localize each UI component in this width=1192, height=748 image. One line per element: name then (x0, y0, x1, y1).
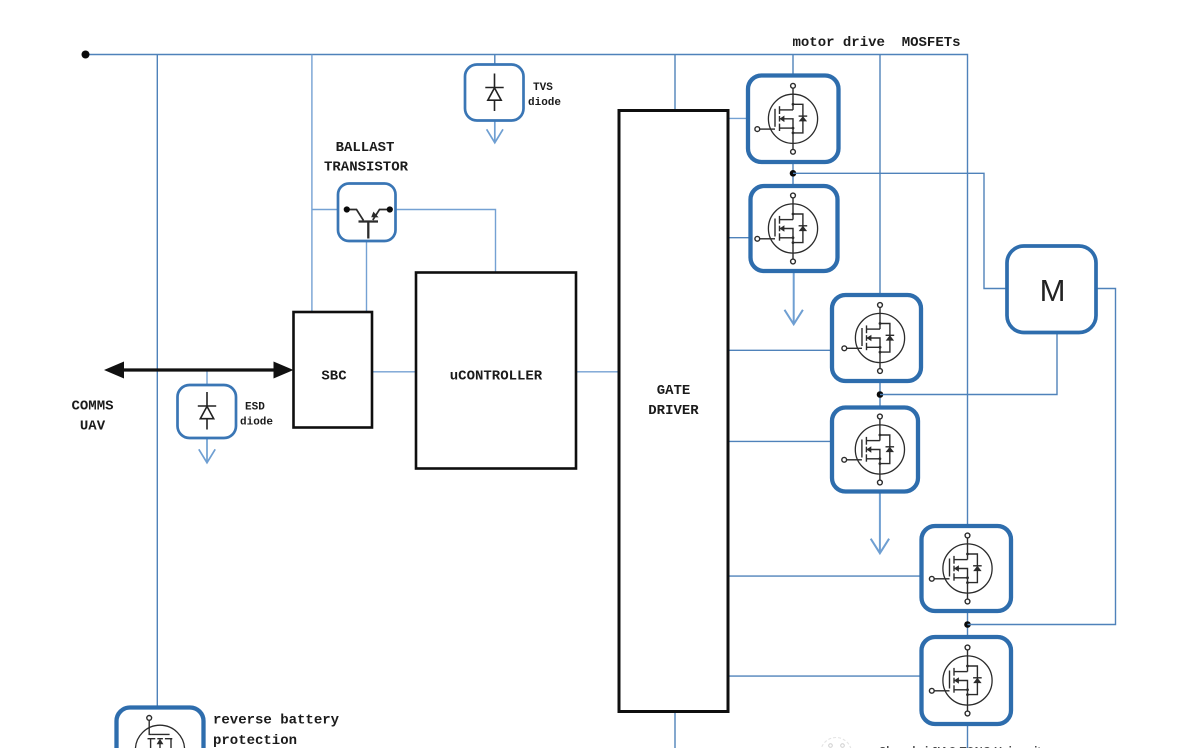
wire: SBC to uCONTROLLER (372, 371, 416, 373)
wire: drop to MOSFET Q1 (792, 55, 794, 76)
svg-text:M: M (1040, 273, 1066, 308)
wire: ballast collector to uCONTROLLER (396, 210, 496, 273)
transistor Q4 (motor MOSFET) (832, 408, 918, 492)
svg-text:TRANSISTOR: TRANSISTOR (324, 160, 409, 176)
ESD diode D2 (178, 385, 237, 438)
transistor Q3 (motor MOSFET) (832, 295, 921, 381)
wire: gate drive Q1 (728, 117, 749, 119)
arrow: Q4 source to ground (879, 492, 881, 552)
arrow: TVS diode to ground (494, 121, 496, 142)
wire: Q5-Q6 phase link (967, 611, 969, 637)
transistor Q6 (motor MOSFET) (922, 637, 1012, 724)
wire: gate driver below stub (674, 712, 676, 748)
svg-text:DRIVER: DRIVER (648, 403, 699, 419)
transistor Q8 (reverse battery protection) (117, 708, 204, 748)
svg-text:motor drive MOSFETs: motor drive MOSFETs (793, 35, 961, 51)
TVS diode D1 (465, 65, 524, 121)
wire: gate drive Q2 (728, 237, 751, 239)
transistor Q5 (motor MOSFET) (922, 526, 1012, 611)
transistor Q1 (motor MOSFET) (748, 76, 839, 163)
svg-text:protection: protection (213, 733, 297, 748)
wire: uCONTROLLER to gate driver (576, 371, 619, 373)
svg-text:TVS: TVS (533, 82, 553, 94)
wire: motor bottom to phase B (880, 332, 1057, 395)
block GATE DRIVER (619, 111, 728, 712)
transistor Q7 (ballast) box (338, 184, 396, 242)
wire: Q6 source down (967, 724, 969, 748)
node: phase B junction (877, 391, 884, 398)
wire: drop to TVS diode (494, 55, 496, 65)
node: phase A junction (790, 170, 797, 177)
motor M (1007, 246, 1096, 333)
watermark logo (821, 738, 852, 748)
wire: ballast base feed (312, 209, 338, 211)
svg-text:reverse battery: reverse battery (213, 713, 340, 729)
svg-text:UAV: UAV (80, 419, 106, 435)
wire: gate drive Q5 (728, 575, 922, 577)
wire: Q3-Q4 phase link (879, 381, 881, 408)
node: supply input dot (82, 51, 90, 59)
arrow: Q2 source to ground (793, 271, 795, 323)
wire: gate drive Q3 (728, 349, 832, 351)
wire: ESD diode tap (206, 370, 208, 385)
wire: phase A to motor (793, 173, 1007, 288)
svg-text:Shanghai JIAO TONG University: Shanghai JIAO TONG University (879, 744, 1047, 748)
block uCONTROLLER (416, 273, 576, 469)
svg-text:COMMS: COMMS (71, 399, 113, 415)
svg-text:BALLAST: BALLAST (336, 140, 395, 156)
wire: drop to SBC (311, 55, 313, 313)
wire: gate drive Q4 (728, 440, 832, 442)
node: phase C junction (964, 621, 971, 628)
svg-text:diode: diode (528, 97, 561, 109)
arrow: ESD diode to ground (206, 438, 208, 462)
svg-text:ESD: ESD (245, 402, 265, 414)
wire: drop to reverse battery protection (156, 55, 158, 709)
wire: ballast emitter to SBC (366, 241, 368, 312)
transistor Q2 (motor MOSFET) (751, 186, 838, 271)
wire: COMMS bidirectional bus (118, 368, 281, 371)
svg-text:uCONTROLLER: uCONTROLLER (450, 369, 543, 385)
svg-text:GATE: GATE (657, 383, 691, 399)
wire: gate drive Q6 (728, 675, 922, 677)
wire: Q1-Q2 phase link (792, 162, 794, 186)
svg-text:SBC: SBC (321, 369, 347, 385)
block SBC (294, 312, 373, 428)
wire: main supply rail (85, 55, 968, 527)
svg-text:diode: diode (240, 417, 273, 429)
wire: drop to MOSFET Q3 (879, 55, 881, 296)
wire: drop to gate driver (674, 55, 676, 110)
wire: motor right to phase C (968, 289, 1116, 625)
